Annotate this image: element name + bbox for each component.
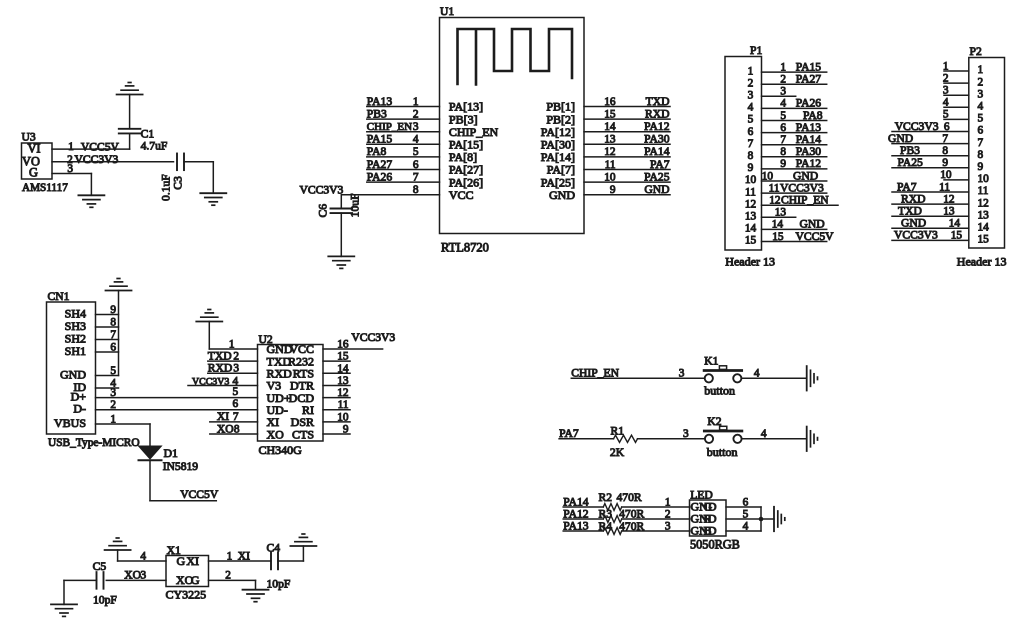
ground right of C3 — [200, 193, 226, 205]
svg-text:PA14: PA14 — [644, 145, 670, 158]
P1 internal pin number 7 — [748, 138, 754, 150]
pin number 4 — [943, 97, 949, 109]
wire net PA14 to resistor R2 — [563, 506, 603, 508]
pin number 4 — [743, 521, 749, 533]
wire U2 pin 15 — [323, 360, 350, 362]
wire net PA13 to resistor R4 — [563, 530, 603, 532]
net label PA14 — [563, 496, 589, 509]
P2 internal pin number 5 — [978, 113, 984, 125]
CN1 pin name GND — [60, 368, 86, 382]
svg-text:10: 10 — [978, 173, 990, 185]
svg-text:2: 2 — [780, 74, 786, 86]
pin number 11 — [605, 159, 616, 171]
svg-text:VCC3V3: VCC3V3 — [351, 331, 395, 344]
svg-text:12: 12 — [978, 197, 990, 209]
svg-text:PA26: PA26 — [367, 170, 393, 183]
svg-text:PA14: PA14 — [796, 133, 822, 146]
pin number 1 — [943, 60, 949, 72]
U2 pin name XI — [267, 415, 280, 429]
pin number 1 — [229, 339, 235, 351]
svg-text:8: 8 — [780, 146, 786, 158]
X1 pin name G — [191, 573, 200, 587]
svg-text:10: 10 — [604, 171, 616, 183]
svg-text:8: 8 — [110, 317, 116, 329]
wire R3 to LED pin 2 — [622, 518, 690, 520]
svg-text:PA25: PA25 — [898, 156, 924, 169]
svg-text:3: 3 — [978, 88, 984, 100]
svg-text:2K: 2K — [610, 446, 625, 459]
net label PA30 — [644, 133, 670, 146]
pin number 2 — [943, 72, 949, 84]
label C6 — [316, 204, 329, 218]
svg-text:PA30: PA30 — [644, 133, 670, 146]
pin number 4 — [110, 378, 116, 390]
svg-text:0.1uF: 0.1uF — [159, 174, 172, 201]
net label PA15 — [367, 133, 393, 146]
svg-text:6: 6 — [978, 125, 984, 137]
svg-text:PA27: PA27 — [796, 73, 822, 86]
P2 internal pin number 10 — [978, 173, 990, 185]
wire U2 pin8 XO — [210, 433, 258, 435]
ground above X1 pin4 — [105, 538, 131, 550]
svg-text:3: 3 — [665, 521, 671, 533]
svg-text:13: 13 — [943, 206, 955, 218]
svg-text:GND: GND — [800, 218, 825, 231]
svg-text:PA7: PA7 — [559, 427, 579, 440]
ground above C1 — [117, 83, 143, 95]
svg-text:7: 7 — [942, 133, 948, 145]
pin number 1 — [413, 96, 419, 108]
P2 internal pin number 9 — [978, 161, 984, 173]
label 10uF — [349, 193, 362, 217]
wire P1 pin 6 net PA13 — [762, 132, 827, 134]
U2 pin name TXD — [267, 354, 292, 368]
svg-text:9: 9 — [780, 158, 786, 170]
svg-text:PA27: PA27 — [367, 158, 393, 171]
P1 internal pin number 13 — [745, 211, 757, 223]
wire CN1 pin 5 — [96, 375, 119, 377]
svg-text:XO: XO — [267, 427, 285, 441]
svg-text:3: 3 — [679, 367, 685, 379]
U1 pin name PB[3] — [449, 112, 478, 126]
net label PA26 — [367, 170, 393, 183]
svg-text:PA30: PA30 — [796, 145, 822, 158]
svg-text:VBUS: VBUS — [54, 416, 86, 430]
svg-text:VI: VI — [27, 141, 40, 155]
net label GND — [888, 132, 913, 145]
svg-text:3: 3 — [943, 85, 949, 97]
svg-text:11: 11 — [978, 185, 989, 197]
wire U2 pin 11 — [323, 409, 350, 411]
P2 internal pin number 7 — [978, 137, 984, 149]
pin number 13 — [775, 207, 787, 219]
junction dot — [759, 517, 764, 522]
net label XI — [217, 410, 229, 423]
svg-text:RTL8720: RTL8720 — [441, 241, 489, 255]
wire U1 pin 15 net RXD — [584, 118, 670, 120]
wire U2 pin1 to ground — [209, 322, 257, 350]
pin number 3 — [780, 86, 786, 98]
svg-text:4: 4 — [140, 550, 146, 562]
wire K2 to ground — [742, 438, 807, 440]
P1 internal pin number 4 — [748, 102, 754, 114]
svg-text:5: 5 — [743, 509, 749, 521]
wire D+ CN1 pin3 to U2 pin5 — [96, 397, 258, 399]
svg-text:15: 15 — [337, 351, 349, 363]
svg-text:16: 16 — [604, 96, 616, 108]
svg-text:3: 3 — [67, 163, 73, 175]
pin number 15 — [337, 351, 349, 363]
U1 pin name PA[14] — [541, 150, 575, 164]
LED pin name B — [704, 524, 712, 538]
label 10pF — [267, 578, 291, 591]
svg-text:G: G — [177, 554, 186, 568]
label 470R — [619, 507, 644, 520]
wire U1 pin 13 net PA30 — [584, 143, 670, 145]
wire P1 pin 5 net PA8 — [762, 120, 827, 122]
svg-text:4: 4 — [780, 98, 786, 110]
svg-text:2: 2 — [748, 77, 754, 89]
pin number 2 — [233, 350, 239, 362]
wire PA7 to R1 — [559, 438, 613, 440]
svg-text:15: 15 — [604, 108, 616, 120]
net label XI — [238, 549, 250, 562]
wire U1 pin 3 net CHIP_EN — [367, 131, 440, 133]
net label PB3 — [367, 107, 387, 120]
U2 pin name R232 — [288, 354, 314, 368]
svg-text:PA7: PA7 — [650, 158, 670, 171]
wire K1 to ground — [742, 377, 807, 379]
net label PA14 — [796, 133, 822, 146]
ground below C6 — [328, 256, 354, 268]
svg-text:U1: U1 — [440, 5, 454, 18]
svg-text:4: 4 — [978, 101, 984, 113]
wire CN1 pin 8 — [96, 326, 119, 328]
wire CN1 pin 9 — [96, 314, 119, 316]
wire U2 pin4 VCC3V3 — [188, 384, 258, 386]
net label PA25 — [644, 170, 670, 183]
P2 internal pin number 4 — [978, 101, 984, 113]
svg-text:SH1: SH1 — [65, 344, 86, 358]
svg-text:VCC3V3: VCC3V3 — [192, 376, 229, 387]
net label XO — [217, 422, 234, 435]
svg-text:2: 2 — [978, 76, 984, 88]
net label VCC3V3 — [894, 229, 938, 242]
wire U2 pin2 TXD — [208, 360, 258, 362]
svg-text:9: 9 — [942, 157, 948, 169]
resistor R3 470R — [603, 516, 621, 523]
label CH340G — [259, 443, 303, 457]
wire P1 pin 13 — [762, 216, 796, 218]
pin number 6 — [413, 159, 419, 171]
wire P1 pin 11 net VCC3V3 — [762, 192, 827, 194]
P1 internal pin number 11 — [745, 186, 756, 198]
X1 pin name G — [177, 554, 186, 568]
pin number 4 — [761, 428, 767, 440]
svg-text:PA7: PA7 — [897, 180, 917, 193]
pin number 6 — [743, 497, 749, 509]
ground above CN1 — [106, 279, 132, 291]
svg-text:10pF: 10pF — [267, 578, 291, 591]
wire P1 pin 7 net PA14 — [762, 144, 827, 146]
svg-text:P2: P2 — [970, 45, 982, 58]
P1 internal pin number 5 — [748, 114, 754, 126]
svg-text:11: 11 — [605, 159, 616, 171]
net label VCC3V3 — [780, 181, 824, 194]
svg-text:C5: C5 — [93, 560, 107, 573]
svg-text:6: 6 — [110, 342, 116, 354]
resistor R2 470R — [603, 504, 621, 511]
ground above U2 pin1 — [196, 310, 222, 322]
ground below U3 pin3 — [78, 195, 104, 207]
label 0.1uF — [159, 174, 172, 201]
svg-text:470R: 470R — [617, 491, 642, 504]
pin number 11 — [939, 181, 950, 193]
wire LED output bus — [760, 507, 762, 531]
label R3 — [599, 507, 613, 520]
net label PA13 — [563, 520, 589, 533]
capacitor C3 0.1uF — [177, 154, 184, 171]
svg-text:6: 6 — [413, 159, 419, 171]
pin number 4 — [140, 550, 146, 562]
svg-text:9: 9 — [748, 162, 754, 174]
U1 pin name PA[8] — [449, 150, 477, 164]
wire U1 pin 11 net PA7 — [584, 169, 670, 171]
pin number 7 — [110, 329, 116, 341]
net label PA12 — [796, 157, 822, 170]
wire P2 pin 8 net PB3 — [892, 155, 969, 157]
pin number 3 — [683, 428, 689, 440]
U1 pin name PB[1] — [546, 100, 575, 114]
wire P1 pin 1 net PA15 — [762, 71, 827, 73]
pin number 6 — [780, 122, 786, 134]
P1 internal pin number 9 — [748, 162, 754, 174]
svg-text:5050RGB: 5050RGB — [690, 538, 740, 552]
net label VCC3V3 — [192, 376, 229, 387]
pin number 9 — [110, 304, 116, 316]
pin number 5 — [743, 509, 749, 521]
svg-text:K1: K1 — [704, 355, 718, 368]
wire U1 pin 6 net PA27 — [367, 169, 440, 171]
U1 pin name GND — [549, 188, 575, 202]
U2 pin name DCD — [289, 391, 315, 405]
svg-text:7: 7 — [780, 134, 786, 146]
pin number 3 — [233, 363, 239, 375]
svg-text:3: 3 — [683, 428, 689, 440]
svg-text:7: 7 — [978, 137, 984, 149]
U2 pin name DSR — [291, 415, 314, 429]
wire X1 pin3 XO to C5 — [106, 579, 166, 581]
svg-text:4: 4 — [754, 367, 760, 379]
svg-text:15: 15 — [772, 231, 784, 243]
pin number 2 — [413, 108, 419, 120]
svg-text:5: 5 — [233, 386, 239, 398]
svg-text:button: button — [707, 445, 738, 459]
net label VCC3V3 — [351, 331, 395, 344]
svg-text:G: G — [29, 166, 38, 180]
wire U1 pin 4 net PA15 — [367, 143, 440, 145]
wire LED pin 4 — [726, 530, 761, 532]
svg-text:1: 1 — [748, 65, 754, 77]
pin number 4 — [754, 367, 760, 379]
wire node to capacitor C6 — [340, 195, 342, 209]
net label PA14 — [644, 145, 670, 158]
wire P1 pin 15 net VCC5V — [762, 241, 827, 243]
wire C6 to ground — [340, 213, 342, 256]
wire P2 pin 2 — [944, 82, 969, 84]
svg-text:R1: R1 — [611, 425, 625, 438]
pin number 6 — [233, 398, 239, 410]
LED pin name GND — [691, 500, 717, 514]
wire P2 pin 7 net GND — [892, 143, 969, 145]
svg-text:PA8: PA8 — [367, 145, 387, 158]
wire VCC3V3 to U1 pin 8 — [342, 194, 439, 196]
svg-text:12: 12 — [604, 146, 616, 158]
P1 internal pin number 3 — [748, 90, 754, 102]
label D1 — [164, 447, 178, 460]
U1 pin name PA[30] — [541, 138, 575, 152]
CN1 pin name D- — [73, 402, 86, 416]
svg-text:13: 13 — [604, 134, 616, 146]
wire U3 pin3 to ground — [52, 174, 91, 196]
label IN5819 — [163, 460, 199, 473]
net label PA7 — [559, 427, 579, 440]
svg-text:1: 1 — [68, 141, 74, 153]
svg-text:12: 12 — [943, 193, 955, 205]
CN1 pin name SH1 — [65, 344, 86, 358]
net label RXD — [645, 107, 669, 120]
wire CHIP_EN to K1 — [571, 377, 704, 379]
svg-text:GND: GND — [549, 188, 575, 202]
pin number 12 — [943, 193, 955, 205]
svg-text:CY3225: CY3225 — [166, 588, 207, 602]
net label XO — [124, 569, 141, 582]
net label PA27 — [796, 73, 822, 86]
pin number 8 — [110, 317, 116, 329]
svg-text:TXD: TXD — [208, 349, 232, 362]
net label GND — [793, 169, 818, 182]
svg-text:6: 6 — [743, 497, 749, 509]
svg-text:2: 2 — [943, 72, 949, 84]
svg-text:7: 7 — [748, 138, 754, 150]
svg-text:12: 12 — [769, 195, 781, 207]
IC U2 CH340G — [258, 333, 324, 441]
button K2 — [704, 426, 742, 443]
pin number 6 — [110, 342, 116, 354]
pin number 8 — [780, 146, 786, 158]
svg-text:R4: R4 — [599, 520, 613, 533]
label C4 — [267, 542, 281, 555]
label Header 13 for P1 — [725, 255, 775, 269]
wire P2 pin 1 — [944, 70, 969, 72]
pin number 5 — [413, 146, 419, 158]
pin number 8 — [942, 145, 948, 157]
wire P1 pin 8 net PA30 — [762, 156, 827, 158]
wire LED pin 5 — [726, 518, 761, 520]
svg-text:4: 4 — [748, 102, 754, 114]
wire bus to ground — [761, 518, 774, 520]
pin number 13 — [604, 134, 616, 146]
svg-text:AMS1117: AMS1117 — [22, 182, 68, 194]
LED pin name GND — [691, 524, 717, 538]
wire P2 pin 4 — [944, 106, 969, 108]
label USB_Type-MICRO — [48, 437, 140, 449]
pin number 9 — [610, 184, 616, 196]
svg-text:8: 8 — [748, 150, 754, 162]
pin number 7 — [413, 171, 419, 183]
wire U2 pin3 RXD — [208, 372, 258, 374]
svg-text:Header 13: Header 13 — [725, 255, 775, 269]
svg-text:PA12: PA12 — [796, 157, 822, 170]
svg-text:XI: XI — [238, 549, 250, 562]
svg-text:16: 16 — [337, 339, 349, 351]
wire U3 pin2 VCC3V3 — [52, 161, 174, 163]
pin number 4 — [780, 98, 786, 110]
svg-text:5: 5 — [780, 110, 786, 122]
X1 pin name XI — [186, 554, 199, 568]
label button — [704, 383, 735, 397]
pin number 1 — [68, 141, 74, 153]
pin number 15 — [951, 230, 963, 242]
label K2 — [707, 415, 721, 428]
label 2K — [610, 446, 625, 459]
svg-text:VCC5V: VCC5V — [796, 230, 835, 243]
ground right of K1 — [807, 366, 818, 390]
svg-text:C4: C4 — [267, 542, 281, 555]
pin number 8 — [413, 184, 419, 196]
pin number 7 — [942, 133, 948, 145]
svg-text:GND: GND — [793, 169, 818, 182]
pin number 10 — [940, 169, 952, 181]
svg-text:RXD: RXD — [208, 362, 232, 375]
svg-text:C6: C6 — [316, 204, 329, 218]
U1 pin name CHIP_EN — [449, 125, 499, 139]
pin number 3 — [110, 387, 116, 399]
svg-text:8: 8 — [234, 423, 240, 435]
svg-text:USB_Type-MICRO: USB_Type-MICRO — [48, 437, 140, 449]
U2 pin name XO — [267, 427, 285, 441]
net label PA30 — [796, 145, 822, 158]
pin number 16 — [604, 96, 616, 108]
svg-text:1: 1 — [943, 60, 949, 72]
svg-text:VCC3V3: VCC3V3 — [780, 181, 824, 194]
svg-text:9: 9 — [343, 424, 349, 436]
wire U1 pin 12 net PA14 — [584, 156, 670, 158]
P2 internal pin number 12 — [978, 197, 990, 209]
net label PA8 — [803, 109, 823, 122]
svg-text:PA13: PA13 — [367, 95, 393, 108]
pin number 9 — [942, 157, 948, 169]
wire X1 pin2 to ground — [209, 580, 256, 589]
svg-text:R3: R3 — [599, 507, 613, 520]
svg-text:button: button — [704, 383, 735, 397]
svg-text:5: 5 — [943, 109, 949, 121]
svg-text:GND: GND — [901, 217, 926, 230]
regulator U3 AMS1117 — [22, 131, 69, 195]
svg-text:2: 2 — [665, 509, 671, 521]
svg-text:D-: D- — [73, 402, 86, 416]
svg-text:G: G — [191, 573, 200, 587]
connector P2 Header 13 — [969, 45, 1005, 248]
pin number 2 — [67, 154, 73, 166]
svg-text:4: 4 — [761, 428, 767, 440]
wire C3 to ground — [184, 162, 213, 193]
svg-text:7: 7 — [233, 411, 239, 423]
svg-text:1: 1 — [413, 96, 419, 108]
wire U2 pin7 XI — [210, 421, 258, 423]
svg-text:5: 5 — [748, 114, 754, 126]
net label GND — [901, 217, 926, 230]
